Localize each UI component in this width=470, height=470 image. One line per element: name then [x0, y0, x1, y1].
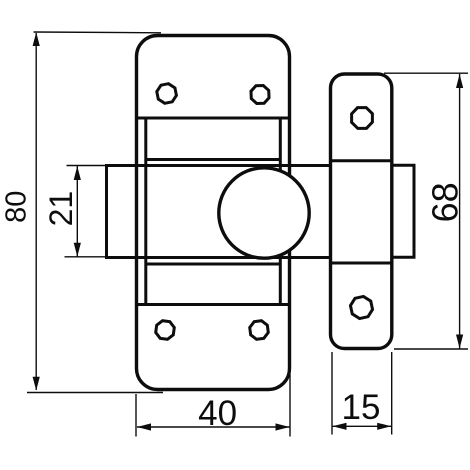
dim68 arrow top — [456, 74, 463, 88]
knob circle — [219, 168, 309, 258]
dim40 arrow left — [137, 423, 151, 430]
dim80 extension line top — [34, 31, 162, 34]
bolt guide rail right of keeper — [392, 165, 414, 257]
svg-text:21: 21 — [43, 191, 79, 227]
dim21 extension line bottom — [65, 256, 107, 258]
dim80 extension line bottom — [27, 392, 163, 394]
bolt bar bottom edge — [107, 256, 331, 259]
plate top divider line — [138, 117, 288, 120]
dim21 arrow top — [74, 166, 81, 180]
dim15 line — [333, 425, 392, 427]
dim15 arrow right — [377, 423, 391, 430]
dim40 extension line left — [135, 394, 137, 437]
dim40 arrow right — [276, 423, 290, 430]
plate slot top line — [146, 158, 280, 161]
keeper bridge bottom line — [332, 262, 391, 265]
dim21 extension line top — [67, 165, 107, 167]
svg-text:40: 40 — [198, 394, 237, 433]
main plate outline — [137, 36, 290, 390]
dim21 arrow bottom — [74, 243, 81, 257]
dim15 arrow left — [333, 423, 347, 430]
dim68 extension line bottom — [394, 348, 468, 350]
dimension 68 — [384, 73, 468, 349]
plate bottom divider line — [138, 303, 288, 306]
dim80 arrow top — [33, 32, 40, 46]
keeper plate outline — [331, 74, 392, 349]
dim15 extension line right — [391, 352, 393, 435]
dim21 line — [76, 166, 78, 257]
dimension 80 — [27, 32, 163, 393]
dim40 line — [137, 426, 290, 428]
dim68 line — [459, 74, 461, 349]
dim68 extension line top — [384, 72, 468, 74]
dimension 40 — [136, 374, 290, 437]
screw hole keeper bottom — [349, 295, 375, 321]
screw hole plate top-left — [155, 82, 178, 105]
screw hole plate bottom-left — [152, 317, 178, 343]
bolt bar top edge — [107, 164, 331, 167]
dimension 21 — [65, 166, 107, 257]
dim40 extension line right — [289, 374, 291, 437]
dim68 arrow bottom — [456, 335, 463, 349]
dim15 extension line left — [331, 352, 333, 435]
screw hole plate top-right — [248, 82, 273, 107]
svg-text:15: 15 — [342, 388, 381, 427]
keeper bridge top line — [332, 159, 391, 162]
dim80 arrow bottom — [33, 377, 40, 391]
bolt bar left end cap — [105, 164, 108, 259]
dimension 15 — [332, 352, 392, 435]
plate inner right flange line — [279, 118, 282, 305]
svg-text:80: 80 — [1, 191, 33, 223]
dim80 line — [35, 33, 37, 390]
svg-text:68: 68 — [425, 182, 466, 222]
screw hole keeper top — [347, 103, 376, 132]
plate inner left flange line — [144, 118, 147, 305]
screw hole plate bottom-right — [247, 318, 271, 342]
plate slot bottom line — [146, 263, 280, 266]
